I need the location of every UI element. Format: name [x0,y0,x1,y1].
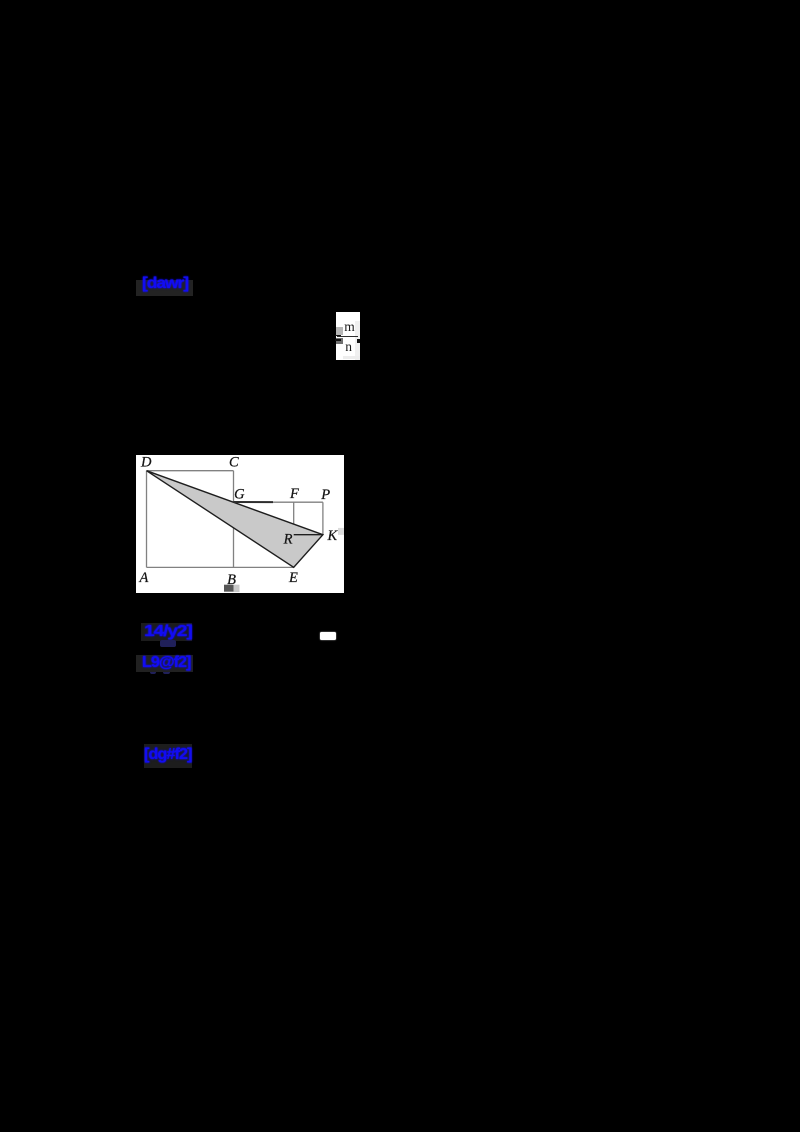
svg-text:B: B [227,572,236,588]
svg-text:A: A [138,570,148,586]
svg-text:G: G [234,487,245,503]
svg-text:D: D [140,455,152,470]
svg-text:K: K [327,528,339,544]
svg-text:R: R [283,532,293,548]
svg-text:F: F [289,486,299,502]
svg-text:E: E [288,570,298,586]
svg-text:P: P [320,487,330,503]
svg-text:C: C [229,455,239,470]
